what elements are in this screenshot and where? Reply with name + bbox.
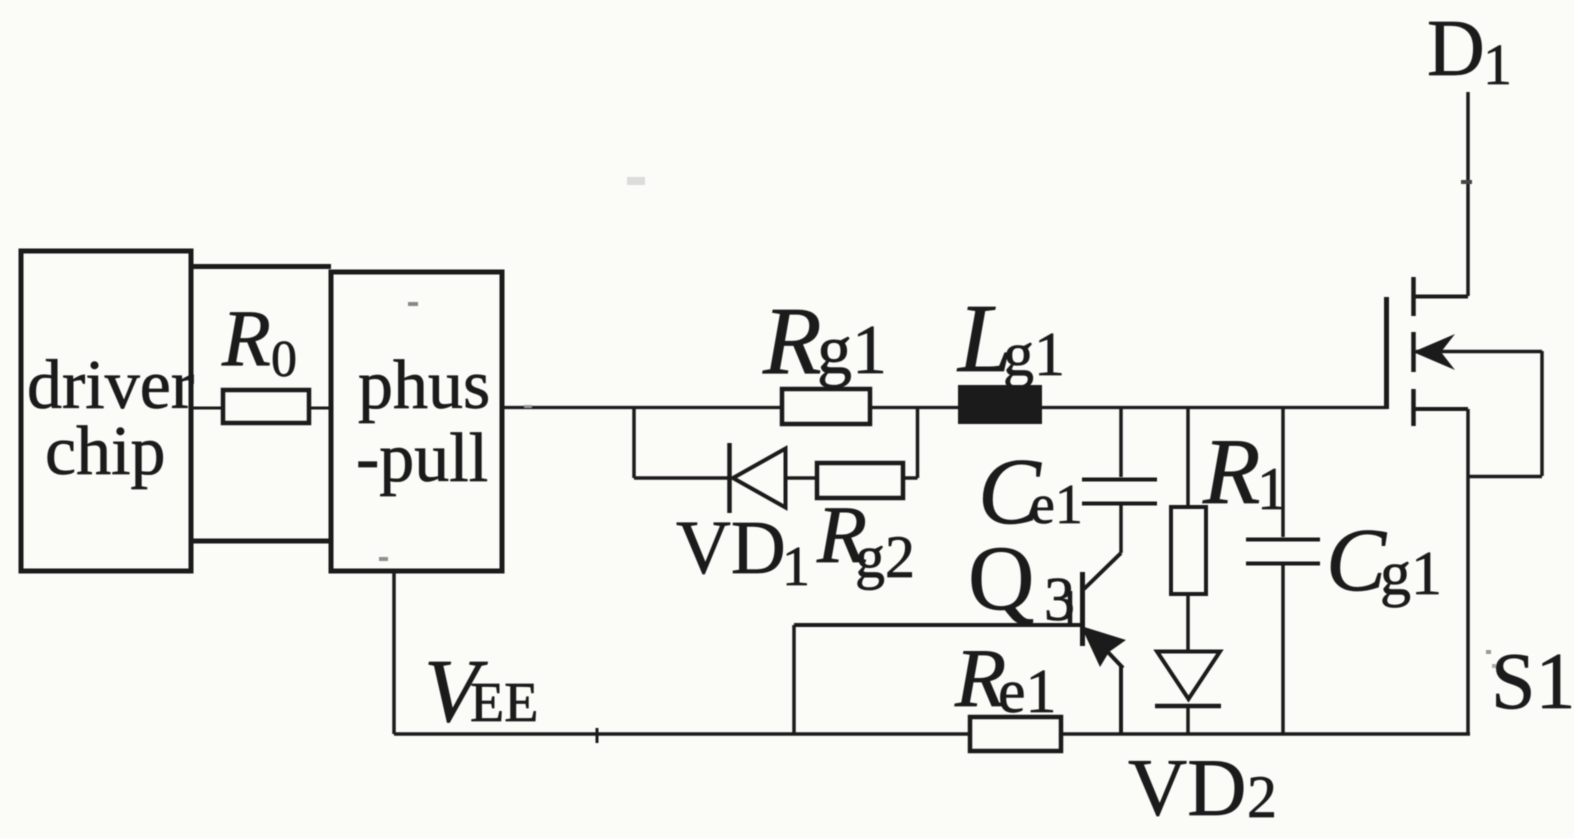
svg-text:e1: e1: [1030, 474, 1083, 536]
svg-text:C: C: [1326, 511, 1387, 610]
svg-text:2: 2: [1247, 764, 1277, 830]
svg-text:VD: VD: [676, 506, 786, 590]
svg-text:EE: EE: [470, 672, 538, 734]
svg-text:chip: chip: [45, 413, 166, 490]
svg-text:g1: g1: [817, 312, 887, 389]
svg-text:3: 3: [1044, 566, 1075, 634]
svg-text:VD: VD: [1128, 742, 1246, 833]
svg-text:g1: g1: [1003, 321, 1065, 389]
svg-text:S1: S1: [1491, 638, 1574, 726]
svg-text:D: D: [1427, 5, 1485, 93]
svg-text:0: 0: [271, 331, 297, 388]
svg-text:e1: e1: [998, 658, 1057, 726]
svg-text:phus: phus: [358, 347, 490, 424]
svg-text:1: 1: [1257, 456, 1287, 522]
svg-text:g1: g1: [1380, 540, 1442, 608]
svg-text:-pull: -pull: [356, 420, 488, 497]
svg-text:R: R: [1202, 420, 1260, 524]
svg-text:Q: Q: [968, 527, 1034, 629]
svg-text:1: 1: [782, 536, 810, 598]
svg-text:g2: g2: [855, 524, 915, 590]
svg-text:R: R: [762, 287, 822, 394]
svg-text:1: 1: [1483, 32, 1512, 97]
svg-text:R: R: [221, 295, 271, 383]
